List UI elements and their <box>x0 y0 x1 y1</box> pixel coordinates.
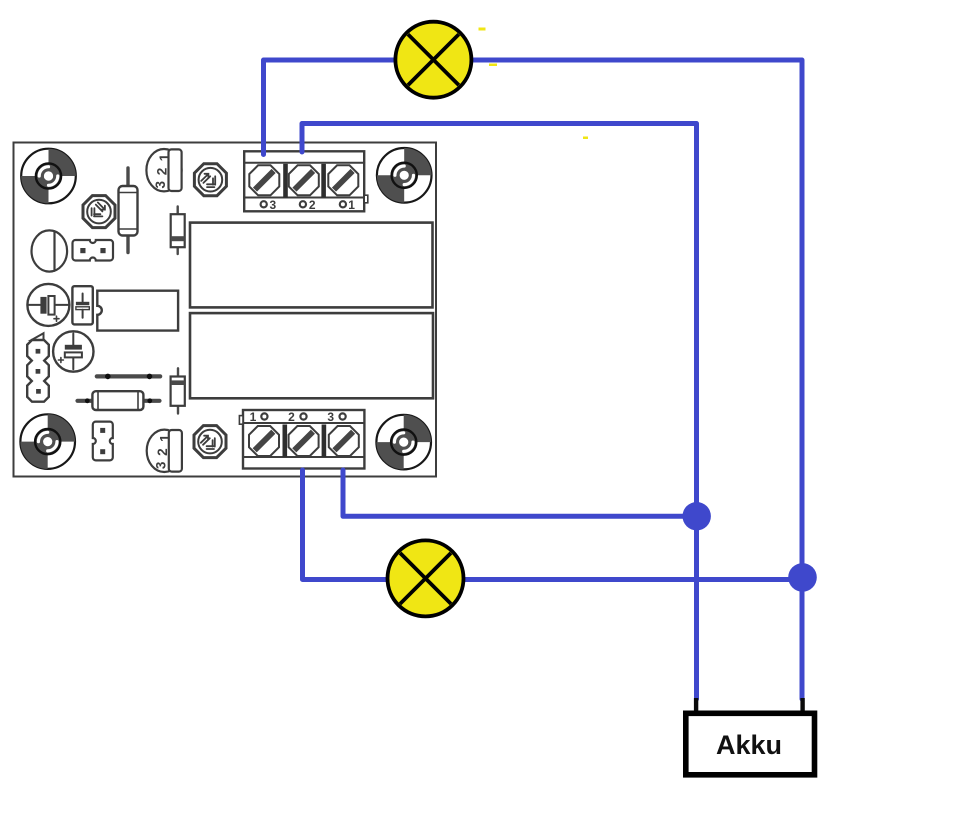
relay K1 <box>190 223 433 308</box>
wire W4: bottom terminal 3 down to junction J1 <box>343 470 697 516</box>
LED DL2 (top, octagon) <box>194 164 226 196</box>
labels O3 O2 O1 <box>261 201 346 207</box>
screw S3 <box>328 165 358 195</box>
transistor Q2 footprint "321" (bottom) <box>147 430 182 472</box>
svg-text:3: 3 <box>269 198 276 212</box>
PCB components <box>20 148 433 472</box>
mounting hole H1 (top-left) <box>21 149 76 204</box>
wire W2: terminal O2 up, across, down middle to battery <box>302 124 697 700</box>
tab left <box>239 416 243 425</box>
svg-text:2: 2 <box>155 448 170 456</box>
jumper wire W5 (trace with 2 pads) <box>97 374 160 380</box>
wire W3 lamp L2 loop: bottom terminal 2 down, across through lamp to junction J2 <box>303 470 803 580</box>
resistor R1 (vertical) <box>119 168 138 253</box>
battery lead stubs (black) <box>696 698 803 712</box>
mounting hole H2 (top-right) <box>377 148 432 203</box>
diode D3 (semicircle footprint) <box>32 230 68 271</box>
header J1 (3-pin, scalloped) <box>27 333 49 402</box>
IC U1 (DIP) <box>97 291 178 331</box>
separator bars <box>283 425 288 458</box>
terminal block TB1 (top) <box>244 151 368 212</box>
screw S5 <box>289 426 319 456</box>
svg-text:3: 3 <box>153 461 168 469</box>
screw S6 <box>329 426 359 456</box>
svg-text:3: 3 <box>153 181 168 189</box>
resistor R2 (horizontal) <box>78 391 160 410</box>
PCB board outline <box>14 143 437 477</box>
svg-text:1: 1 <box>348 198 355 212</box>
capacitor C3 (electrolytic, round) <box>53 331 93 371</box>
LED DL1 (left, octagon) <box>83 196 115 228</box>
mounting hole H4 (bottom-right) <box>376 415 431 470</box>
separator bars <box>283 164 288 198</box>
mounting hole H3 (bottom-left) <box>20 414 75 469</box>
svg-text:2: 2 <box>155 168 170 176</box>
lamp L1 <box>395 22 471 98</box>
relay K2 <box>190 313 433 398</box>
diode D2 (vertical) <box>171 368 185 413</box>
svg-text:Akku: Akku <box>716 730 782 760</box>
jumper JP1 (horizontal 2-pin) <box>73 240 114 261</box>
stray yellow specks (paint artifacts) <box>479 28 589 140</box>
wire W1 lamp L1 loop: terminal O3 up, across top, down right side to battery <box>264 60 803 699</box>
svg-text:2: 2 <box>288 410 295 424</box>
capacitor C2 (box) <box>72 286 92 324</box>
junction J1 <box>683 502 711 530</box>
LED DL3 (bottom, octagon) <box>194 426 226 458</box>
screw S2 <box>289 165 319 195</box>
transistor Q1 footprint "321" (top) <box>146 149 181 191</box>
jumper JP2 (vertical 2-pin) <box>93 422 113 461</box>
battery Akku <box>686 713 815 775</box>
svg-text:1: 1 <box>250 410 257 424</box>
lamp L2 <box>388 540 464 616</box>
diode D1 (vertical) <box>171 207 185 255</box>
screw S1 <box>249 165 279 195</box>
capacitor C1 (electrolytic, round) <box>27 284 69 326</box>
labels 1 2 3 with pads <box>261 413 345 419</box>
svg-text:2: 2 <box>309 198 316 212</box>
junction J2 <box>788 563 817 592</box>
svg-text:1: 1 <box>157 153 172 161</box>
tab right <box>364 195 368 203</box>
svg-text:1: 1 <box>157 434 172 442</box>
screw S4 <box>249 426 279 456</box>
terminal block TB2 (bottom) <box>239 410 364 469</box>
svg-text:3: 3 <box>327 410 334 424</box>
